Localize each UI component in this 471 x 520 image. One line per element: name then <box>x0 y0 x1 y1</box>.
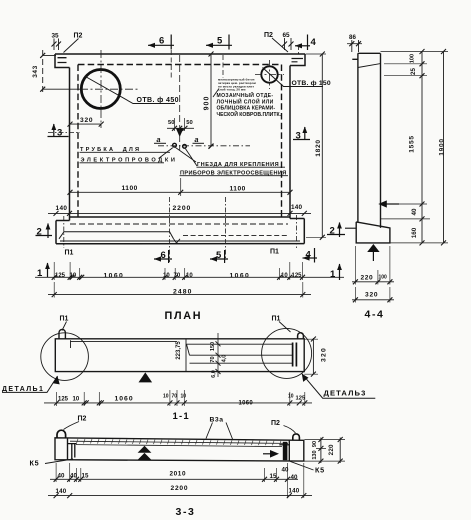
П1 axis dashdot left <box>63 216 65 248</box>
svg-text:140: 140 <box>289 488 300 495</box>
svg-text:70: 70 <box>210 356 216 362</box>
cut line 3 left <box>48 132 80 134</box>
hole 450 circle <box>81 70 120 109</box>
cut line 4-4 <box>298 45 300 54</box>
svg-text:220: 220 <box>361 275 374 282</box>
center arrow blob <box>176 129 183 138</box>
bottom band bottom edge <box>56 243 304 245</box>
svg-text:40: 40 <box>282 466 289 473</box>
svg-text:100: 100 <box>409 54 415 63</box>
svg-text:160: 160 <box>411 227 418 238</box>
svg-text:50: 50 <box>168 120 174 126</box>
svg-text:140: 140 <box>56 488 67 495</box>
svg-text:2010: 2010 <box>170 471 187 478</box>
hole 150 circle <box>261 66 277 82</box>
1-1 detail circle right <box>262 328 312 378</box>
3-3 hatch ticks <box>77 439 282 445</box>
svg-text:5: 5 <box>216 250 222 261</box>
3-3 top second line <box>70 441 288 443</box>
svg-text:1: 1 <box>37 268 43 279</box>
sockets axis dashed <box>158 145 250 147</box>
svg-text:90: 90 <box>312 441 318 447</box>
section mark 4 bottom <box>303 248 318 263</box>
4-4 panel right edge <box>380 53 382 228</box>
svg-text:10: 10 <box>73 397 80 403</box>
svg-text:П1: П1 <box>270 249 279 256</box>
section mark 4 top <box>295 35 310 51</box>
plan top-left protrusion <box>55 54 70 68</box>
svg-text:40: 40 <box>58 472 65 479</box>
svg-text:320: 320 <box>321 347 328 362</box>
section mark 2 left <box>36 224 53 239</box>
1-1 dim 320 right <box>304 337 318 377</box>
svg-text:100: 100 <box>379 275 388 281</box>
svg-text:65: 65 <box>283 32 291 39</box>
svg-text:ДЕТАЛЬ3: ДЕТАЛЬ3 <box>324 389 367 398</box>
svg-text:343: 343 <box>32 65 39 78</box>
4-4 left arrow <box>378 200 387 207</box>
3-3 right dim col 220 <box>338 437 343 464</box>
section mark 3 left <box>48 124 69 137</box>
3-3 inner core line <box>76 445 282 447</box>
3-3 right arrow <box>270 450 279 458</box>
protrusion hook marks <box>58 58 67 63</box>
cut line 5 bottom <box>225 197 227 260</box>
bottom band top inner edge <box>70 216 290 218</box>
3-3 double up arrows <box>138 446 152 453</box>
svg-text:86: 86 <box>349 34 356 41</box>
4-4 dim col 1 <box>381 49 449 245</box>
sockets <box>173 143 177 147</box>
svg-text:П1: П1 <box>60 316 69 323</box>
svg-text:130: 130 <box>312 450 318 459</box>
svg-text:3: 3 <box>57 128 62 139</box>
3-3 K5 angle right <box>283 442 288 460</box>
dim 50 50 <box>167 118 194 131</box>
3-3 left inner face <box>67 438 69 460</box>
4-4 dim col 1900 <box>441 49 446 245</box>
section mark 5 top <box>206 35 232 50</box>
1-1 slab outline <box>55 339 304 372</box>
svg-text:4: 4 <box>306 250 312 261</box>
hole 150 leader <box>263 68 324 87</box>
svg-text:К5: К5 <box>315 466 325 475</box>
4-4 panel left edge <box>357 53 359 222</box>
svg-text:3-3: 3-3 <box>176 506 196 518</box>
svg-text:2200: 2200 <box>171 485 189 492</box>
svg-text:70: 70 <box>174 273 181 279</box>
dim 1820 right of plan <box>306 52 327 240</box>
notch hook marks <box>292 59 304 62</box>
bottom band right step <box>290 219 304 244</box>
svg-text:1100: 1100 <box>122 185 138 192</box>
1-1 detail circle left <box>41 333 89 381</box>
hole 450 leader <box>85 76 176 104</box>
svg-text:140: 140 <box>291 204 303 211</box>
svg-text:6,0: 6,0 <box>211 370 217 378</box>
3-3 right hook <box>293 434 300 440</box>
svg-text:150: 150 <box>210 342 216 351</box>
svg-text:10: 10 <box>288 394 294 400</box>
cut line 5-5 top <box>222 55 224 78</box>
svg-text:1060: 1060 <box>230 273 251 280</box>
svg-text:10: 10 <box>181 394 187 400</box>
П1 axis dashdot right <box>296 215 298 248</box>
cut line 6-6 top <box>170 50 172 78</box>
dim row 1100 1100 <box>68 178 293 196</box>
svg-text:10: 10 <box>186 273 193 279</box>
dim row 2480 <box>48 282 311 298</box>
3-3 right dim col 130 90 <box>305 437 346 464</box>
svg-text:1100: 1100 <box>230 186 246 193</box>
svg-text:140: 140 <box>56 205 68 212</box>
svg-text:35: 35 <box>52 33 60 40</box>
section mark 6 bottom <box>154 250 172 263</box>
svg-text:10: 10 <box>281 273 288 279</box>
svg-text:П1: П1 <box>65 250 74 257</box>
svg-text:ЛОЧНЫЙ СЛОЙ ИЛИ: ЛОЧНЫЙ СЛОЙ ИЛИ <box>217 97 274 105</box>
svg-text:125: 125 <box>296 396 306 402</box>
1-1 vert dim line <box>216 333 221 377</box>
4-4 support triangle <box>367 244 379 252</box>
svg-text:В3а: В3а <box>210 417 224 424</box>
svg-text:ПЛАН: ПЛАН <box>165 310 203 322</box>
dim row 140 2200 140 <box>48 211 311 216</box>
svg-text:25: 25 <box>410 68 417 75</box>
section mark 6 top <box>148 35 174 50</box>
svg-text:40: 40 <box>291 474 298 481</box>
svg-text:2480: 2480 <box>173 289 193 296</box>
dim 900 vertical <box>209 52 214 149</box>
dashed inner right <box>281 65 283 218</box>
svg-text:П2: П2 <box>264 32 273 39</box>
plan top edge <box>55 53 305 55</box>
dim row plan 125..2480 row1 <box>35 262 344 280</box>
svg-text:1-1: 1-1 <box>173 411 190 422</box>
svg-text:1900: 1900 <box>438 138 445 155</box>
svg-text:6: 6 <box>159 36 164 47</box>
4-4 taper line <box>358 64 381 68</box>
svg-text:220: 220 <box>328 444 335 455</box>
dashed inner top <box>78 64 282 66</box>
section mark 1 left <box>47 263 49 277</box>
svg-text:4-4: 4-4 <box>365 309 385 321</box>
svg-text:2200: 2200 <box>173 205 192 212</box>
4-4 foot <box>356 222 390 243</box>
1-1 center divider <box>185 339 187 372</box>
1-1 left recess <box>71 340 178 348</box>
svg-text:125: 125 <box>55 273 66 279</box>
inner dashed contour <box>78 65 282 218</box>
3-3 dim row1 <box>50 463 304 498</box>
svg-text:1060: 1060 <box>239 401 254 407</box>
3-3 dim row2 <box>48 493 312 498</box>
dashed inner left <box>77 65 79 218</box>
3-3 left hook <box>57 430 66 438</box>
section mark 1 right <box>339 264 341 280</box>
dim 320 under circle <box>68 122 104 127</box>
svg-text:а: а <box>195 135 199 144</box>
svg-text:ОТВ. ф 450: ОТВ. ф 450 <box>137 97 179 104</box>
svg-text:10: 10 <box>70 273 77 279</box>
svg-text:15: 15 <box>270 473 277 480</box>
1-1 left hook <box>59 329 65 338</box>
1-1 up arrow <box>139 372 153 382</box>
svg-text:1: 1 <box>330 269 336 280</box>
svg-text:900: 900 <box>203 96 210 111</box>
svg-text:125: 125 <box>58 397 69 403</box>
svg-text:1555: 1555 <box>408 135 415 152</box>
gnezda leaders <box>159 148 198 167</box>
svg-text:5: 5 <box>217 36 223 47</box>
4-4 panel left flange tick <box>352 58 358 60</box>
svg-text:223,75: 223,75 <box>176 341 182 360</box>
1-1 right channel <box>187 344 293 363</box>
svg-text:320: 320 <box>80 117 93 124</box>
svg-text:1060: 1060 <box>115 396 134 403</box>
cut line 6 bottom <box>169 197 171 262</box>
4-4 bottom dims <box>352 246 394 285</box>
svg-text:40: 40 <box>411 208 418 215</box>
section mark 2 right <box>327 223 345 238</box>
dim 35 top-left <box>52 39 62 51</box>
svg-text:1060: 1060 <box>104 273 125 280</box>
svg-text:К5: К5 <box>30 459 40 468</box>
svg-text:слой толщ. 20 мм: слой толщ. 20 мм <box>218 88 246 92</box>
svg-text:40: 40 <box>70 472 77 479</box>
svg-text:ОБЛИЦОВКА КЕРАМИ-: ОБЛИЦОВКА КЕРАМИ- <box>217 106 276 112</box>
mosaic leader <box>213 89 219 98</box>
svg-text:125: 125 <box>292 273 303 279</box>
svg-text:3: 3 <box>296 131 301 142</box>
3-3 slab outline <box>55 438 304 461</box>
bottom band inner long line <box>60 240 300 242</box>
section mark 3 right <box>293 127 310 140</box>
svg-text:15: 15 <box>82 472 89 479</box>
3-3 K5 angle left <box>68 444 77 460</box>
svg-text:П2: П2 <box>271 420 280 427</box>
right channel dashed <box>183 235 288 237</box>
1-1 dim row <box>44 390 312 406</box>
left channel trapezoid <box>59 232 174 239</box>
dim 343 <box>40 50 80 95</box>
center joint notch <box>174 239 181 243</box>
plan left wall <box>69 68 71 221</box>
band dashed line <box>70 223 288 225</box>
1-1 right hook <box>298 333 304 340</box>
svg-text:ОТВ. ф 150: ОТВ. ф 150 <box>292 80 331 87</box>
svg-text:1820: 1820 <box>315 139 322 156</box>
svg-text:70: 70 <box>172 394 178 400</box>
dim 65 top-right <box>282 38 294 50</box>
svg-text:4,0: 4,0 <box>221 355 227 363</box>
svg-text:ЧЕСКОЙ КОВРОВ.ПЛИТК.: ЧЕСКОЙ КОВРОВ.ПЛИТК. <box>217 110 282 118</box>
svg-text:10: 10 <box>163 394 169 400</box>
svg-text:50: 50 <box>186 120 192 126</box>
svg-text:а: а <box>157 135 161 144</box>
svg-text:320: 320 <box>365 292 378 299</box>
svg-text:2: 2 <box>37 227 42 238</box>
plan right wall <box>289 66 291 219</box>
3-3 right inner face <box>288 441 290 462</box>
plan top-right notch <box>290 54 305 66</box>
svg-text:4: 4 <box>311 37 317 48</box>
svg-text:6: 6 <box>161 250 166 261</box>
svg-text:2: 2 <box>330 226 335 237</box>
svg-text:10: 10 <box>163 273 170 279</box>
bottom band left step <box>56 221 70 244</box>
4-4 panel top cap <box>358 52 380 54</box>
svg-text:МОЗАИЧНЫЙ ОТДЕ-: МОЗАИЧНЫЙ ОТДЕ- <box>217 91 274 99</box>
section mark 5 bottom <box>210 250 228 263</box>
hole150 centerlines <box>255 60 284 89</box>
circle centerlines <box>80 50 140 128</box>
